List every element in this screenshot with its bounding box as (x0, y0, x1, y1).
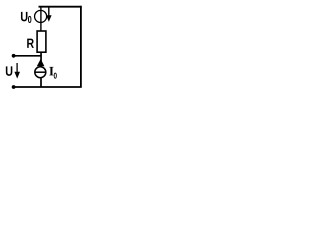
wire below resistor (40, 52, 42, 67)
label R (27, 39, 34, 48)
voltage source U0 (35, 10, 47, 22)
wire below current source (40, 78, 42, 87)
wire through voltage source (40, 7, 42, 31)
terminal node top (12, 54, 16, 58)
wire right (80, 6, 82, 88)
current source I0 (35, 67, 46, 78)
label I0 (49, 67, 53, 76)
wire left stub top (13, 55, 41, 57)
voltage arrow U (down) (16, 63, 18, 72)
wire top (39, 6, 82, 8)
terminal node bottom (12, 85, 16, 89)
wire bottom (13, 86, 82, 88)
label U0 (21, 12, 27, 21)
resistor R (37, 31, 46, 52)
label U (6, 66, 12, 75)
voltage arrow U0 (down) (48, 7, 50, 17)
current arrow I0 (up) (37, 59, 45, 66)
bar of current source (35, 71, 46, 73)
